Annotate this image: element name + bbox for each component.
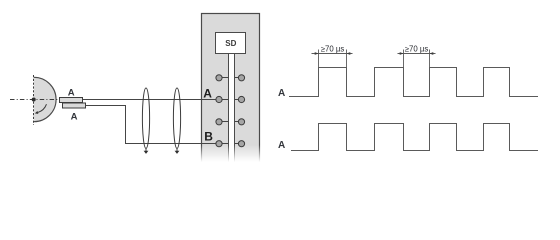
wire signal A (top): [83, 99, 229, 101]
SD left line: [228, 54, 230, 174]
svg-text:A: A: [68, 87, 75, 98]
waveform A (bottom trace): [291, 124, 538, 151]
terminal stubs left column: [219, 78, 229, 144]
svg-text:A: A: [71, 111, 78, 122]
extension lines annotation 2: [404, 50, 430, 68]
encoder disc (semicircle): [34, 77, 56, 121]
svg-text:SD: SD: [225, 39, 236, 48]
terminal circles right column: [238, 75, 244, 147]
axis center dot: [32, 98, 36, 102]
shield drain arrow 1: [145, 148, 147, 151]
svg-text:A: A: [278, 88, 285, 99]
module body (SD module, fades at bottom): [202, 14, 260, 174]
SD box: [216, 33, 246, 54]
svg-text:B: B: [204, 129, 213, 143]
cable loop ellipse 2: [173, 88, 180, 148]
cable loop ellipse 1: [142, 88, 149, 148]
terminal stubs right column: [235, 78, 242, 144]
svg-text:≥70 µs: ≥70 µs: [321, 44, 345, 53]
wire signal B (bottom, with jog): [86, 106, 229, 144]
white channel between SD lines: [229, 54, 234, 174]
svg-text:A: A: [203, 86, 212, 100]
disc flat edge (dashed vertical line): [33, 75, 35, 125]
scanning head upper (rect): [60, 98, 83, 103]
rotation direction arrow: [38, 104, 47, 112]
shield drain arrow 2: [176, 148, 178, 151]
extension lines annotation 1: [319, 50, 347, 68]
dimension line annotation 1: [312, 53, 353, 55]
svg-text:≥70 µs: ≥70 µs: [405, 44, 429, 53]
terminal circles left column: [216, 75, 222, 147]
SD right line: [234, 54, 236, 174]
encoder disc axis (dash-dot line): [10, 99, 58, 101]
scanning head lower (rect): [63, 103, 86, 108]
svg-text:A: A: [278, 140, 285, 151]
dimension line annotation 2: [398, 53, 436, 55]
waveform A (top trace): [289, 68, 538, 97]
